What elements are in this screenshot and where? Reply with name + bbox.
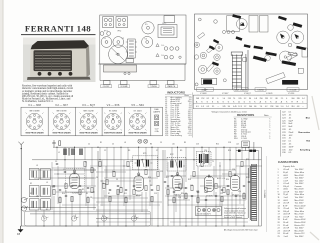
capacitor bbox=[167, 185, 169, 186]
svg-text:C13: C13 bbox=[196, 144, 199, 146]
svg-text:C22: C22 bbox=[52, 187, 55, 189]
V3 octal base diagram bbox=[80, 113, 98, 131]
dial lamp DL1 bbox=[138, 139, 142, 143]
svg-text:C13: C13 bbox=[154, 193, 157, 195]
antenna A bbox=[18, 142, 24, 226]
knobs bbox=[38, 72, 42, 76]
svg-text:C20: C20 bbox=[238, 191, 241, 193]
screened box around V1 bbox=[66, 169, 85, 193]
volume pot circle bbox=[279, 51, 291, 63]
svg-text:L1: L1 bbox=[58, 152, 60, 154]
voltage table header ticks bbox=[198, 94, 286, 97]
wire bbox=[104, 169, 160, 171]
wire links right half bbox=[165, 166, 262, 205]
resistor bbox=[215, 183, 217, 188]
trimmer circles plan bbox=[164, 47, 168, 51]
svg-text:C18: C18 bbox=[190, 185, 193, 187]
capacitor bar bbox=[288, 52, 297, 56]
dial lamp symbols plan bbox=[156, 44, 159, 57]
svg-text:MAINS T2: MAINS T2 bbox=[264, 190, 267, 198]
wire bbox=[157, 147, 159, 170]
wire bbox=[200, 199, 246, 201]
capacitor bar bbox=[293, 22, 303, 27]
notes text block bbox=[224, 207, 246, 219]
svg-text:R14: R14 bbox=[62, 193, 65, 195]
resistor bar bbox=[213, 39, 219, 44]
svg-text:All voltages measured with 230: All voltages measured with 230V mains in… bbox=[224, 229, 258, 232]
wire bbox=[87, 196, 89, 226]
capacitor bbox=[65, 195, 67, 196]
inductors/voltage divider rule bbox=[191, 93, 193, 138]
valve V2 bbox=[134, 174, 143, 191]
svg-text:R17: R17 bbox=[166, 177, 169, 179]
resistor bbox=[241, 161, 243, 166]
grommet circles left bbox=[194, 42, 199, 47]
wire bbox=[99, 147, 101, 160]
output transformer T1 bbox=[197, 152, 212, 167]
aerial coil L1 bbox=[64, 148, 82, 156]
svg-text:R10: R10 bbox=[181, 193, 184, 195]
svg-text:R21: R21 bbox=[246, 177, 249, 179]
resistor bbox=[185, 193, 187, 198]
under-chassis layout figure bbox=[195, 14, 308, 90]
resistor bbox=[99, 161, 101, 166]
waveband switch S1 bbox=[21, 197, 28, 211]
IF transformer IFT1 bbox=[133, 156, 158, 170]
svg-text:S1: S1 bbox=[46, 209, 48, 211]
black component bars bbox=[202, 14, 307, 85]
svg-text:R6: R6 bbox=[150, 144, 152, 146]
wire heater rail bbox=[96, 218, 248, 220]
wire cathode rail bbox=[30, 213, 150, 215]
wire bbox=[179, 196, 181, 226]
svg-text:L14: L14 bbox=[236, 144, 239, 146]
wire bbox=[173, 190, 175, 226]
svg-text:R1: R1 bbox=[100, 142, 102, 144]
wire bbox=[227, 190, 229, 226]
switch wafer S1c bbox=[101, 215, 108, 222]
svg-text:IFT2: IFT2 bbox=[170, 154, 174, 156]
extra tiny labels bbox=[30, 177, 249, 199]
junction dots bbox=[43, 147, 249, 227]
resistor bbox=[191, 185, 193, 190]
resistor bbox=[227, 189, 229, 194]
switch wafer S1d bbox=[131, 214, 138, 221]
svg-text:R2: R2 bbox=[82, 189, 84, 191]
svg-text:C3: C3 bbox=[55, 161, 57, 163]
svg-text:C9: C9 bbox=[116, 179, 118, 181]
dial cord line bbox=[245, 54, 247, 90]
descriptive paragraph bbox=[21, 85, 73, 104]
wire bbox=[164, 150, 166, 178]
capacitor bbox=[248, 181, 250, 182]
valve V1 plan bbox=[101, 37, 112, 48]
wire bbox=[133, 196, 135, 226]
wire bbox=[103, 190, 105, 226]
svg-text:L5: L5 bbox=[46, 182, 48, 184]
resistor bbox=[125, 197, 127, 202]
capacitor bbox=[56, 163, 58, 164]
switch wafer S1a bbox=[41, 215, 48, 222]
wiring colour code table bbox=[279, 110, 281, 157]
capacitor bbox=[109, 189, 111, 190]
top rail callout specks bbox=[88, 142, 239, 145]
capacitor bar bbox=[254, 46, 264, 50]
resistor bbox=[71, 196, 73, 201]
wire bbox=[235, 147, 237, 176]
resistor bbox=[221, 196, 223, 201]
mains dropper black bbox=[203, 79, 212, 84]
wire AVC rail bbox=[21, 207, 96, 209]
wire bbox=[96, 209, 148, 211]
svg-text:C19: C19 bbox=[218, 187, 221, 189]
resistor bbox=[197, 197, 199, 202]
resistor bbox=[179, 183, 181, 188]
capacitor bbox=[53, 185, 55, 186]
wire bbox=[34, 177, 96, 179]
resistor bar bbox=[209, 45, 215, 50]
resistor bar bbox=[232, 14, 241, 19]
volume control black bbox=[282, 80, 298, 85]
svg-text:C9: C9 bbox=[160, 142, 162, 144]
wire bbox=[166, 175, 186, 177]
svg-text:Switch in M.W. position.: Switch in M.W. position. bbox=[224, 216, 243, 219]
wire bbox=[191, 196, 193, 226]
wire bbox=[248, 147, 250, 178]
resistor bbox=[223, 187, 225, 192]
capacitor bbox=[151, 189, 153, 190]
svg-text:L6: L6 bbox=[36, 196, 38, 198]
chassis front elevation bbox=[98, 64, 186, 85]
base shadow bbox=[27, 77, 91, 80]
plan tiny labels bbox=[104, 23, 167, 57]
aerial coil L2 box bbox=[29, 168, 50, 210]
wire bbox=[109, 196, 111, 226]
radio cabinet body bbox=[30, 46, 90, 77]
svg-text:C21: C21 bbox=[220, 193, 223, 195]
svg-text:R8: R8 bbox=[150, 185, 152, 187]
coil unit L2 bbox=[260, 16, 269, 33]
electrolytic can bbox=[227, 16, 240, 31]
V2 octal base diagram bbox=[53, 113, 71, 131]
wire bbox=[91, 147, 93, 186]
grid cap V3 bbox=[176, 172, 178, 174]
wire bbox=[65, 190, 67, 226]
switch unit enclosure bbox=[25, 211, 151, 226]
valve V3 bbox=[173, 174, 182, 191]
resistor bbox=[120, 187, 122, 192]
resistor bbox=[59, 197, 61, 202]
wire bbox=[104, 177, 158, 179]
svg-text:R6: R6 bbox=[120, 187, 122, 189]
resistor bbox=[157, 171, 159, 176]
wire bbox=[59, 196, 61, 226]
svg-text:R11: R11 bbox=[124, 193, 127, 195]
resistor bbox=[193, 171, 195, 176]
speaker feed capacitor C40 bbox=[238, 150, 256, 152]
wire bbox=[84, 147, 86, 160]
valve V2 plan bbox=[113, 37, 124, 48]
resistor bbox=[65, 183, 67, 188]
wire HT top rail bbox=[53, 146, 261, 148]
wire bbox=[200, 185, 230, 187]
resistor bar bbox=[244, 44, 251, 48]
wire bbox=[229, 147, 231, 170]
wire bbox=[71, 196, 73, 226]
junction dots extra bbox=[52, 162, 241, 197]
wire bbox=[74, 147, 76, 173]
capacitor bar bbox=[253, 56, 267, 62]
wire bbox=[190, 175, 230, 177]
wire bbox=[43, 210, 45, 226]
tag strip ladder bbox=[231, 50, 248, 90]
resistor bbox=[205, 187, 207, 192]
svg-text:C12: C12 bbox=[130, 161, 133, 163]
mains transformer T2 bbox=[248, 164, 256, 221]
wire bbox=[145, 192, 147, 226]
wire bbox=[235, 196, 237, 226]
wire bbox=[205, 196, 207, 226]
valve V1 bbox=[70, 172, 79, 189]
svg-text:C14: C14 bbox=[204, 150, 207, 152]
svg-text:C8: C8 bbox=[90, 197, 92, 199]
wire bbox=[168, 199, 190, 201]
resistor bbox=[167, 189, 169, 194]
chassis feet bbox=[104, 81, 111, 85]
IF transformer IFT2 bbox=[167, 158, 186, 172]
V5 octal base diagram bbox=[129, 113, 147, 131]
wire right border double bbox=[259, 147, 262, 226]
capacitor bbox=[117, 185, 119, 186]
resistor bbox=[151, 196, 153, 201]
wire bbox=[208, 147, 210, 165]
capacitor bbox=[243, 185, 245, 186]
valve V5 bbox=[230, 174, 239, 191]
wire screen rail bbox=[32, 159, 261, 161]
svg-text:C6: C6 bbox=[96, 177, 98, 179]
resistor bbox=[109, 196, 111, 201]
wire bbox=[120, 147, 122, 186]
resistor bbox=[117, 189, 119, 194]
svg-text:L8: L8 bbox=[124, 142, 126, 144]
wire bbox=[104, 195, 140, 197]
IF can 1 plan bbox=[103, 17, 114, 28]
capacitor bbox=[221, 189, 223, 190]
resistor bbox=[91, 167, 93, 172]
resistor bbox=[79, 189, 81, 194]
wire bbox=[201, 147, 203, 160]
resistor bbox=[127, 161, 129, 166]
resistor bbox=[229, 171, 231, 176]
switch wafer S1b bbox=[71, 214, 78, 221]
capacitor bbox=[133, 185, 135, 186]
wire bbox=[151, 147, 153, 186]
capacitor bar bbox=[296, 46, 306, 51]
small rects right bbox=[298, 68, 303, 73]
svg-text:IFT1: IFT1 bbox=[143, 153, 147, 155]
wire speaker bbox=[236, 142, 258, 160]
resistor bbox=[133, 189, 135, 194]
svg-text:R9: R9 bbox=[180, 150, 182, 152]
resistor bbox=[87, 197, 89, 202]
svg-text:R5: R5 bbox=[86, 193, 88, 195]
valve V5 socket under bbox=[236, 19, 247, 30]
capacitor bbox=[125, 189, 127, 190]
resistor bar bbox=[212, 62, 219, 67]
wire bbox=[157, 192, 159, 226]
wire bbox=[150, 201, 162, 203]
capacitor bbox=[185, 187, 187, 188]
capacitor bbox=[191, 195, 193, 196]
svg-text:R3: R3 bbox=[128, 150, 130, 152]
mains voltage adjustment panel bbox=[196, 207, 222, 216]
wire bbox=[79, 190, 81, 226]
svg-text:C18: C18 bbox=[228, 142, 231, 144]
capacitor bbox=[79, 185, 81, 186]
resistor bar bbox=[236, 36, 243, 41]
capacitor bar bbox=[265, 52, 276, 57]
resistor bbox=[113, 171, 115, 176]
capacitor C1 bbox=[52, 140, 55, 147]
wire bbox=[145, 147, 147, 168]
capacitor bbox=[164, 181, 166, 182]
svg-text:R12: R12 bbox=[216, 144, 219, 146]
resistor bbox=[145, 185, 147, 190]
wire bbox=[151, 196, 153, 226]
elevation control labels bbox=[101, 85, 178, 88]
fold shadow right edge bbox=[310, 96, 319, 240]
svg-text:C16: C16 bbox=[178, 197, 181, 199]
svg-text:C15: C15 bbox=[160, 171, 163, 173]
gang condenser circles bbox=[277, 31, 290, 44]
tuning gang plan bbox=[109, 45, 128, 64]
wire bbox=[167, 196, 169, 226]
wire bbox=[185, 147, 187, 182]
svg-text:R16: R16 bbox=[148, 177, 151, 179]
mains transformer plan bbox=[158, 25, 177, 38]
capacitor bbox=[173, 191, 175, 192]
wire bbox=[243, 192, 245, 226]
wire bbox=[185, 192, 187, 226]
resistor bbox=[84, 161, 86, 166]
wire bbox=[35, 210, 37, 226]
svg-text:L10: L10 bbox=[172, 144, 175, 146]
wire bbox=[177, 147, 179, 173]
wire bbox=[56, 147, 58, 160]
wire bbox=[215, 192, 217, 226]
dial assembly elevation bbox=[104, 65, 137, 72]
outline components diagonal bbox=[198, 33, 205, 39]
capacitor bbox=[235, 195, 237, 196]
wire bbox=[113, 147, 115, 170]
wire bbox=[197, 190, 199, 226]
wire IF screen 2 bbox=[162, 150, 164, 226]
wire bbox=[171, 147, 173, 160]
resistor bbox=[173, 197, 175, 202]
valve voltage analysis table bbox=[193, 95, 307, 109]
resistor bbox=[91, 187, 93, 192]
svg-text:C2: C2 bbox=[88, 144, 90, 146]
wire bbox=[215, 147, 217, 178]
svg-text:C5: C5 bbox=[70, 183, 72, 185]
wire bbox=[125, 196, 127, 226]
small chassis rect bbox=[126, 59, 134, 63]
svg-text:R12: R12 bbox=[200, 161, 203, 163]
resistor R1 bbox=[59, 141, 61, 146]
valve V4 bbox=[204, 175, 213, 192]
external speaker box bbox=[242, 141, 250, 148]
wire bbox=[241, 147, 243, 160]
valve V3 plan bbox=[142, 22, 154, 34]
dial grille dark bbox=[34, 50, 73, 71]
resistor bbox=[103, 183, 105, 188]
extra left links bbox=[52, 162, 96, 210]
above-chassis plan figure bbox=[100, 15, 186, 64]
wire bbox=[96, 201, 150, 203]
wire bbox=[30, 169, 96, 171]
capacitor bbox=[171, 175, 173, 176]
grid cap V1 bbox=[73, 170, 75, 172]
resistor bbox=[157, 185, 159, 190]
capacitor bbox=[227, 185, 229, 186]
heater wire right bbox=[96, 221, 248, 223]
trimmer row bbox=[223, 31, 226, 34]
svg-text:T1: T1 bbox=[212, 161, 214, 163]
svg-text:C2: C2 bbox=[104, 150, 106, 152]
extra fine wires left-mid bbox=[54, 160, 246, 212]
capacitor bbox=[71, 185, 73, 186]
resistor bbox=[201, 161, 203, 166]
capacitor bbox=[64, 171, 66, 172]
resistor bbox=[243, 193, 245, 198]
svg-text:R18: R18 bbox=[188, 179, 191, 181]
svg-text:C11: C11 bbox=[136, 195, 139, 197]
wire bbox=[138, 147, 140, 174]
coil unit L7 bbox=[249, 16, 258, 33]
base captions bbox=[30, 110, 143, 112]
svg-text:S2: S2 bbox=[30, 183, 32, 185]
resistor bbox=[53, 189, 55, 194]
misc small circles bottom bbox=[195, 18, 226, 86]
svg-text:200 220 240 250 V: 200 220 240 250 V bbox=[197, 214, 212, 216]
wire IF screen 1 bbox=[97, 151, 99, 226]
wire bbox=[64, 147, 66, 168]
capacitor bbox=[87, 187, 89, 188]
svg-text:R19: R19 bbox=[208, 177, 211, 179]
page edge shadow bbox=[0, 0, 3, 243]
svg-text:C5: C5 bbox=[112, 144, 114, 146]
svg-text:C24: C24 bbox=[232, 169, 235, 171]
valve base panel bbox=[21, 107, 163, 136]
resistor bbox=[106, 179, 108, 184]
svg-text:R15: R15 bbox=[246, 159, 249, 161]
svg-text:S3: S3 bbox=[30, 193, 32, 195]
wire bbox=[117, 190, 119, 226]
wire bbox=[53, 196, 55, 226]
control spindle labels bbox=[197, 88, 300, 91]
capacitor bar bbox=[282, 60, 297, 66]
IF can 2 plan bbox=[116, 17, 128, 28]
V1 octal base diagram bbox=[26, 113, 44, 131]
radio photograph bbox=[23, 38, 96, 83]
capacitor bbox=[59, 189, 61, 190]
column rule bbox=[266, 156, 268, 232]
title rule bbox=[21, 33, 96, 36]
capacitor bbox=[215, 195, 217, 196]
svg-text:R13: R13 bbox=[228, 150, 231, 152]
svg-text:C17: C17 bbox=[196, 191, 199, 193]
wire bbox=[193, 147, 195, 170]
